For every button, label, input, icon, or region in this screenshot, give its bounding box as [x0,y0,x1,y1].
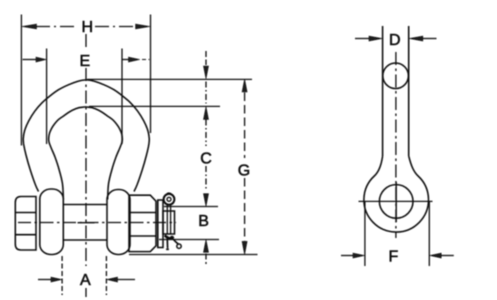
cotter pin shaft [167,205,170,234]
dimension F right arrow [440,255,454,257]
hex head [15,197,36,251]
bow outer outline [23,80,149,192]
bow section circle [383,63,409,89]
vertical centerline left view [85,34,87,297]
dimension A right arrow [117,279,136,281]
dimension H extension right [150,15,152,134]
dimension H extension left [20,15,22,146]
dimension F extension right [428,201,430,266]
C arrow down at bolt top [204,194,209,207]
pin hole [379,185,413,219]
eye outline with flare [364,156,429,232]
bolt protruding end [163,211,175,234]
svg-text:B: B [198,213,209,230]
cotter pin ring [164,194,175,205]
extension line bolt top [164,206,218,208]
extension line inner top of bow [89,105,220,107]
svg-text:H: H [82,19,94,36]
dimension A extension right [105,256,107,295]
cotter pin bend [165,235,174,238]
dimension E line right arrow [122,59,130,61]
cotter pin prong curl [177,244,181,248]
bolt axis centerline [18,222,176,224]
cotter pin prong left [166,236,169,249]
svg-text:D: D [389,32,401,49]
C arrow up at inner top [204,107,209,120]
eye vertical center solid [395,182,397,222]
eye horizontal centerline [359,200,433,202]
G arrow down at bottom [242,241,247,254]
hex nut [129,195,156,251]
G arrow up at top [242,79,247,92]
bow inner opening [49,107,123,200]
dimension E extension left [46,49,48,145]
bolt shank between ears [63,205,107,241]
washer [158,200,163,248]
cotter pin prong right [171,236,178,244]
dimension D right arrow [422,38,437,40]
extension line bolt bottom [159,239,219,241]
shank left edge [382,26,384,156]
svg-text:E: E [80,53,91,70]
svg-text:F: F [389,249,399,266]
dimension H arrow left [22,24,37,29]
C dimension line [205,82,207,104]
dimension D left arrow [355,38,371,40]
shank right edge [408,26,410,156]
dimension H arrow right [136,24,151,29]
right view vertical centerline [395,52,397,238]
dimension E line left arrow [23,59,38,61]
B arrow up at bolt bottom [204,240,209,253]
dimension F left arrow [341,255,354,257]
left ear [40,189,64,255]
svg-text:A: A [80,272,91,289]
extension line top of bow [87,78,252,80]
extension line bottom of ears [129,254,258,256]
G dimension line [244,93,246,241]
svg-text:C: C [200,151,212,168]
dimension H line [36,26,137,28]
C line lower [205,166,207,191]
center cross dash [78,222,95,224]
right ear [107,190,130,255]
dimension F extension left [364,201,366,266]
dimension A left arrow [38,279,52,281]
C dimension line upper arrow (down at bow top) [205,51,207,65]
dimension E extension right [121,49,123,145]
dimension A extension left [61,256,63,295]
svg-text:G: G [238,163,250,180]
